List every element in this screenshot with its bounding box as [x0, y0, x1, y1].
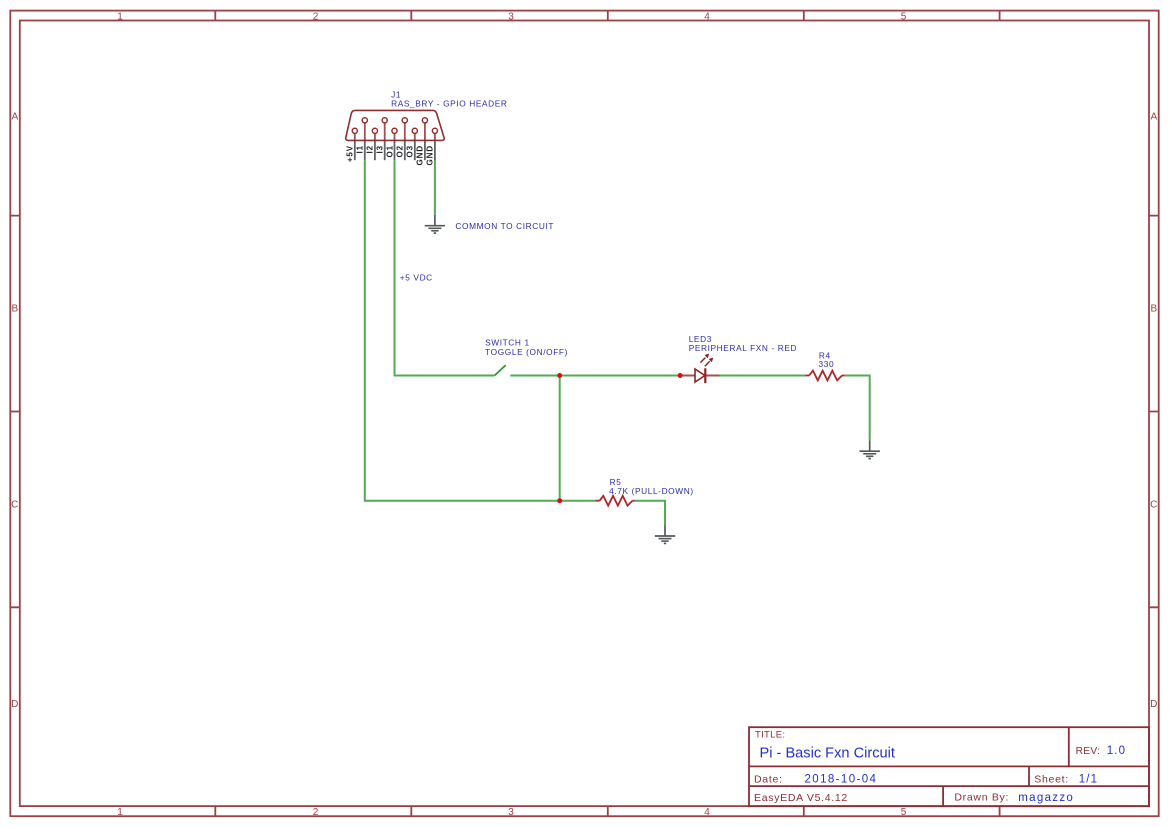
svg-text:4: 4	[704, 807, 710, 818]
svg-text:REV:: REV:	[1076, 746, 1101, 757]
svg-text:+5V: +5V	[346, 145, 355, 162]
svg-text:4: 4	[704, 11, 710, 22]
svg-text:+5 VDC: +5 VDC	[400, 273, 433, 283]
svg-text:O1: O1	[385, 145, 394, 157]
svg-text:O2: O2	[396, 145, 405, 157]
svg-text:D: D	[1150, 699, 1157, 710]
svg-text:I2: I2	[366, 145, 375, 153]
svg-text:RAS_BRY - GPIO HEADER: RAS_BRY - GPIO HEADER	[391, 98, 507, 108]
svg-text:B: B	[1150, 304, 1157, 315]
svg-text:Pi - Basic Fxn Circuit: Pi - Basic Fxn Circuit	[760, 745, 895, 761]
svg-text:1: 1	[117, 11, 123, 22]
svg-text:I3: I3	[376, 145, 385, 153]
svg-text:COMMON TO CIRCUIT: COMMON TO CIRCUIT	[455, 221, 554, 231]
svg-text:TOGGLE (ON/OFF): TOGGLE (ON/OFF)	[485, 347, 568, 357]
svg-text:1/1: 1/1	[1079, 773, 1099, 785]
svg-text:2018-10-04: 2018-10-04	[805, 773, 878, 785]
svg-text:GND: GND	[426, 145, 435, 165]
svg-text:Date:: Date:	[754, 773, 783, 785]
svg-text:3: 3	[508, 807, 514, 818]
svg-text:330: 330	[819, 359, 835, 369]
svg-text:TITLE:: TITLE:	[755, 729, 785, 740]
svg-text:I1: I1	[356, 145, 365, 153]
svg-text:5: 5	[901, 807, 907, 818]
svg-text:4.7K (PULL-DOWN): 4.7K (PULL-DOWN)	[609, 486, 694, 496]
svg-text:A: A	[1150, 112, 1157, 123]
svg-text:C: C	[11, 500, 18, 511]
svg-text:C: C	[1150, 500, 1157, 511]
svg-text:3: 3	[508, 11, 514, 22]
svg-text:O3: O3	[406, 145, 415, 157]
svg-text:Drawn By:: Drawn By:	[954, 792, 1009, 804]
svg-text:PERIPHERAL FXN - RED: PERIPHERAL FXN - RED	[689, 343, 797, 353]
svg-text:GND: GND	[416, 145, 425, 165]
svg-text:1.0: 1.0	[1107, 745, 1127, 757]
svg-text:B: B	[11, 304, 18, 315]
svg-text:Sheet:: Sheet:	[1034, 773, 1069, 785]
svg-text:magazzo: magazzo	[1018, 792, 1074, 804]
svg-text:1: 1	[117, 807, 123, 818]
svg-text:2: 2	[313, 11, 319, 22]
svg-text:5: 5	[901, 11, 907, 22]
svg-text:EasyEDA V5.4.12: EasyEDA V5.4.12	[754, 792, 848, 804]
svg-text:A: A	[11, 112, 18, 123]
svg-text:2: 2	[313, 807, 319, 818]
svg-text:D: D	[11, 699, 18, 710]
